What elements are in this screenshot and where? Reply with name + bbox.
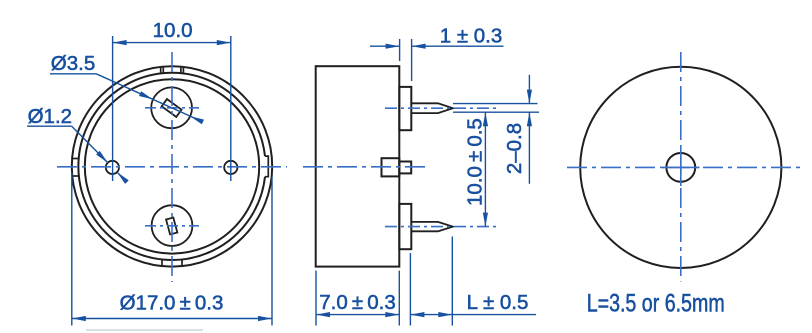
top sound hole circle	[151, 87, 192, 128]
ring tick bottom 2	[181, 259, 183, 266]
middle ring circle (gap at right notch)	[78, 73, 265, 260]
left arrow line	[370, 45, 400, 47]
arrow 10.0±0.5 down	[483, 213, 488, 227]
arrow Ø3.5 lower	[190, 116, 204, 124]
extension line left	[315, 271, 317, 326]
svg-text:1 ± 0.3: 1 ± 0.3	[440, 24, 503, 47]
solid cross horizontal	[662, 166, 700, 168]
arrow 1±0.3 left	[386, 44, 400, 49]
right arrow line	[412, 45, 504, 47]
extension line right	[271, 177, 273, 326]
leader Ø1.2	[27, 126, 127, 182]
tab inner rect	[382, 158, 400, 176]
svg-text:7.0 ± 0.3: 7.0 ± 0.3	[319, 291, 395, 314]
bottom pin base	[399, 204, 411, 249]
horizontal centerline	[57, 166, 287, 168]
arrow Ø17 left	[72, 316, 86, 321]
leader Ø3.5	[50, 74, 203, 122]
top pin	[411, 103, 453, 113]
dimension line with tail	[410, 314, 536, 316]
dimension L±0.5 (pin length)	[410, 237, 536, 326]
bottom pin	[411, 222, 453, 231]
extension line pin top	[453, 103, 538, 105]
top hole slot	[162, 99, 182, 117]
ring tick top 4	[182, 67, 184, 74]
right edge notch	[265, 156, 268, 177]
arrow Ø3.5 upper	[139, 91, 153, 99]
upper tail	[528, 75, 530, 104]
small hole left	[106, 161, 119, 174]
ring tick top 1	[160, 67, 162, 74]
horizontal centerline body	[303, 166, 425, 168]
arrow 10.0 right	[217, 40, 231, 45]
ring tick left upper	[72, 158, 79, 160]
arrow L left	[410, 312, 424, 317]
arrow Ø17 right	[258, 316, 272, 321]
dimension line	[484, 112, 486, 226]
lower tail	[528, 112, 530, 184]
outer circle back view	[580, 67, 781, 268]
ring tick bottom 1	[161, 259, 163, 266]
solid cross vertical	[680, 149, 682, 186]
dimension 2-0.8 (pin diameter)	[453, 75, 539, 184]
dimension 1±0.3 (top)	[370, 39, 504, 81]
extension line pin bottom	[453, 111, 539, 113]
centerlines front view	[57, 52, 287, 282]
vertical centerline	[680, 52, 682, 282]
dimension 10.0 (top)	[113, 36, 231, 181]
horizontal centerline	[567, 166, 805, 168]
top hole horizontal centerline	[145, 107, 199, 109]
svg-text:Ø17.0 ± 0.3: Ø17.0 ± 0.3	[120, 292, 224, 315]
ring tick top 3	[180, 67, 182, 74]
arrow 7.0 right	[385, 312, 399, 317]
tab outer rect	[399, 162, 411, 174]
svg-text:10.0: 10.0	[153, 19, 193, 42]
svg-text:L=3.5 or 6.5mm: L=3.5 or 6.5mm	[587, 289, 725, 317]
svg-text:10.0 ± 0.5: 10.0 ± 0.5	[464, 118, 487, 206]
dimension Ø17.0±0.3 (bottom of front view)	[72, 172, 272, 326]
bottom pin centerline	[385, 226, 500, 228]
svg-text:Ø3.5: Ø3.5	[51, 52, 95, 75]
extension line left	[71, 172, 73, 326]
extension line right	[398, 271, 400, 326]
extension line left	[399, 39, 401, 61]
top pin base	[399, 87, 411, 130]
dimension line	[316, 314, 399, 316]
arrow Ø1.2 upper	[96, 151, 108, 163]
svg-text:Ø1.2: Ø1.2	[28, 105, 72, 128]
arrow 10.0 left	[113, 40, 127, 45]
arrow 2-0.8 up	[527, 112, 532, 126]
ring tick left lower	[72, 175, 79, 177]
centerlines back view	[567, 52, 805, 282]
extension line right	[411, 39, 413, 81]
svg-text:2–0.8: 2–0.8	[503, 123, 526, 174]
inner circle	[85, 79, 259, 253]
arrow 1±0.3 right	[412, 44, 426, 49]
top pin centerline	[385, 107, 500, 109]
extension line right	[230, 36, 232, 181]
bottom sound hole circle	[152, 205, 193, 246]
bottom hole horizontal centerline	[145, 225, 199, 227]
bottom hole slot	[166, 218, 177, 235]
small hole right	[224, 161, 237, 174]
arrow 7.0 left	[316, 312, 330, 317]
body rectangle	[316, 66, 400, 266]
arrow L right	[438, 312, 452, 317]
dimension 7.0±0.3 (body width)	[316, 271, 399, 326]
centerlines side view	[303, 108, 500, 226]
dimension 10.0±0.5 (pin spacing)	[484, 112, 486, 226]
extension line left	[409, 253, 411, 326]
arrow Ø1.2 lower	[117, 172, 129, 184]
center hole back view	[666, 153, 695, 182]
extension line left	[112, 36, 114, 181]
vertical centerline	[171, 52, 173, 282]
arrow 2-0.8 down	[527, 90, 532, 104]
dimension line	[113, 42, 231, 44]
extension line right	[451, 237, 453, 326]
arrow 10.0±0.5 up	[483, 112, 488, 126]
ring tick top 2	[162, 67, 164, 74]
faint artifact line bottom	[86, 329, 203, 331]
svg-text:L ± 0.5: L ± 0.5	[467, 291, 529, 314]
outer circle	[72, 66, 272, 266]
dimension line	[72, 318, 272, 320]
